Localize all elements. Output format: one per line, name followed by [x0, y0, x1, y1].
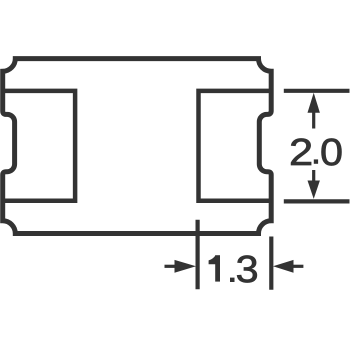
extension line top (pad top, right side)	[284, 89, 350, 93]
right terminal pad rectangle	[199, 91, 272, 201]
dimension text 1.3 digit 1 stem	[215, 255, 220, 281]
extension line right (1.3)	[269, 237, 273, 290]
extension line left (1.3)	[196, 220, 200, 289]
dimension arrow pointing right (1.3)	[175, 260, 197, 273]
component body outline with concave corner reliefs and side castellation bumps	[3, 59, 272, 234]
svg-text:3: 3	[236, 248, 259, 291]
dimension text 1.3 decimal point	[230, 278, 235, 282]
left terminal pad rectangle	[3, 91, 75, 201]
svg-text:0: 0	[320, 131, 343, 174]
dimension arrow down (2.0)	[308, 181, 320, 199]
extension line bottom (pad bottom, right side)	[284, 199, 350, 203]
dimension arrow up (2.0)	[308, 93, 320, 113]
dimension text 1.3 digit 1 flag	[209, 255, 216, 264]
dimension arrow pointing left (1.3)	[273, 260, 294, 273]
dimension text 2.0 decimal point	[314, 159, 318, 163]
svg-text:2: 2	[289, 131, 313, 174]
